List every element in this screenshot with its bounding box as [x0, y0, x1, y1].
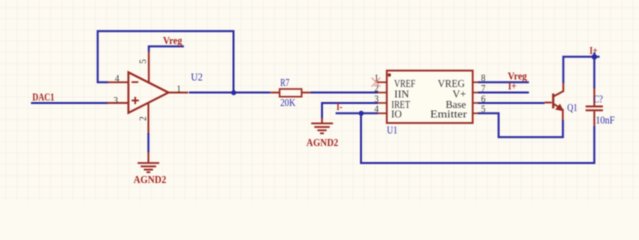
svg-text:IO: IO	[391, 110, 402, 121]
svg-text:2: 2	[374, 84, 379, 94]
wire Vreg stub at op-amp pin 5	[149, 46, 184, 51]
node junction at output	[231, 90, 236, 95]
base bar	[552, 94, 554, 109]
transistor Q1	[545, 83, 564, 121]
U1 pin 7 stub	[473, 92, 479, 94]
base stub	[545, 102, 552, 104]
svg-text:4: 4	[374, 104, 379, 114]
op-amp pin 3 stub	[108, 102, 129, 104]
emitter arrowhead	[556, 105, 563, 111]
op-amp pin 5 stub (top)	[148, 51, 150, 83]
svg-text:4: 4	[115, 73, 120, 83]
svg-text:IIN: IIN	[394, 89, 409, 100]
wire I- net to U1 pin 4	[336, 112, 378, 114]
ground AGND2 (left)	[138, 152, 160, 172]
U1 pin 1 stub	[377, 81, 387, 83]
wire U1 pin 5 to Q1 emitter	[478, 113, 563, 137]
U1 pin 8 stub	[473, 81, 479, 83]
wire node to R7	[234, 92, 271, 94]
op-amp plus sign	[132, 97, 139, 104]
wire DAC1 to op-amp pin 3	[31, 102, 108, 104]
wire U1 pin 6 to Q1 base	[478, 102, 545, 104]
U1 pin 3 stub	[378, 102, 387, 104]
svg-text:AGND2: AGND2	[134, 175, 167, 186]
emitter	[553, 104, 563, 121]
grid	[0, 0, 1, 1]
wire U1 pin 8 to Vreg label	[478, 81, 529, 83]
no-ERC X marker on pin 1	[372, 78, 381, 87]
wire op-amp pin 2 to ground	[147, 133, 149, 153]
wire feedback loop (output node to pin 4)	[98, 31, 234, 92]
op-amp minus sign	[132, 81, 139, 83]
node junction I+	[592, 54, 598, 60]
U1 pin 2 stub	[378, 92, 387, 94]
wire U1 pin 7 to I+ label	[478, 92, 529, 94]
svg-text:20K: 20K	[280, 98, 296, 109]
ground AGND2 (middle)	[311, 118, 333, 133]
top lead	[593, 88, 595, 106]
op-amp pin 2 stub (bottom)	[147, 103, 149, 134]
bottom plate	[586, 109, 603, 111]
top plate	[586, 105, 603, 107]
svg-text:1: 1	[374, 73, 379, 83]
wire I+ stub up	[593, 52, 595, 56]
svg-text:3: 3	[113, 96, 118, 106]
wire R7 to U1 pin 2	[310, 92, 378, 94]
svg-text:3: 3	[374, 94, 379, 104]
collector	[553, 83, 563, 97]
svg-text:I+: I+	[508, 82, 517, 93]
wire junction down to bottom rail	[361, 113, 594, 163]
svg-text:I-: I-	[336, 102, 342, 113]
resistor R7	[270, 89, 310, 97]
svg-text:U2: U2	[191, 73, 203, 84]
U1 pin 5 stub	[473, 112, 479, 114]
wire op-amp output to node	[189, 92, 234, 94]
U1 pin 6 stub	[473, 102, 479, 104]
svg-text:Vreg: Vreg	[163, 36, 182, 47]
wire Q1 collector to I+ node	[563, 57, 599, 83]
svg-text:U1: U1	[387, 126, 398, 137]
node junction on I- wire	[359, 111, 364, 116]
svg-text:V+: V+	[452, 89, 466, 100]
svg-text:1: 1	[176, 84, 181, 94]
bottom lead	[593, 111, 595, 126]
capacitor C?	[586, 88, 603, 126]
svg-text:Q1: Q1	[567, 103, 577, 114]
svg-text:Emitter: Emitter	[430, 110, 467, 121]
op-amp pin 4 stub	[108, 81, 128, 83]
U1 pin 4 stub	[378, 112, 387, 114]
op-amp pin 1 output stub	[169, 92, 189, 94]
wire U1 pin 3 to AGND2	[322, 103, 378, 118]
svg-text:2: 2	[138, 116, 148, 121]
svg-text:R7: R7	[280, 78, 289, 89]
svg-text:C?: C?	[594, 94, 604, 105]
svg-text:I+: I+	[590, 46, 598, 57]
svg-text:5: 5	[138, 59, 148, 64]
svg-text:10nF: 10nF	[596, 116, 616, 127]
U1 part marker dot	[388, 73, 391, 76]
svg-text:AGND2: AGND2	[306, 138, 338, 149]
wire I+ node down to capacitor	[593, 57, 595, 89]
op-amp U2	[128, 72, 168, 113]
IC U1 body	[387, 71, 473, 123]
